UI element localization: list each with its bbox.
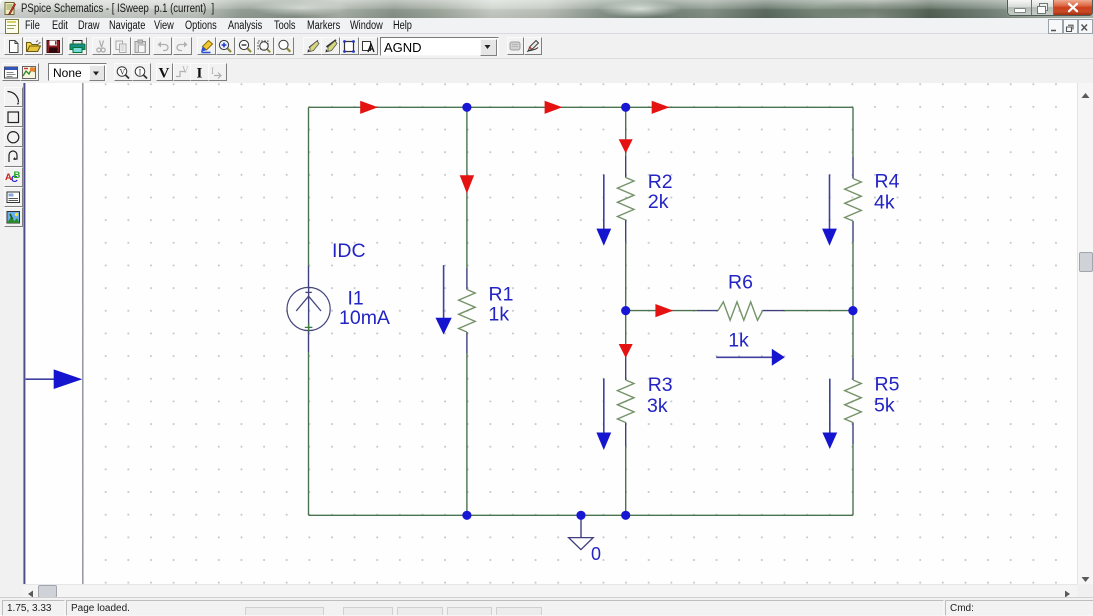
enable bias current display button: [190, 63, 209, 81]
enable bias voltage display button: [156, 63, 173, 81]
pin R4 bottom: [852, 221, 854, 242]
horizontal scrollbar: [0, 584, 23, 597]
current direction arrow into R2: [619, 139, 633, 153]
svg-text:V: V: [120, 68, 126, 77]
view voltage levels button: [114, 63, 133, 81]
current direction arrow into R1: [460, 175, 474, 193]
current marker R3 stem: [603, 379, 605, 434]
current source I1 body: [287, 287, 330, 331]
resistor R5: [845, 380, 862, 423]
MDI child window buttons: [1048, 19, 1063, 34]
show voltages on selected nets (disabled): [173, 63, 192, 81]
save button: [44, 37, 63, 55]
pin R4 top: [852, 157, 854, 179]
page edge line: [23, 83, 25, 584]
current marker R1 stem: [443, 265, 445, 319]
schematic canvas: [23, 83, 1077, 584]
redo button (disabled): [173, 37, 192, 55]
node dot top-middle: [621, 103, 630, 112]
current marker R1 head: [436, 318, 452, 335]
status bar: [0, 597, 1093, 615]
toolbar row 2: [0, 59, 1093, 84]
current marker R5 head: [822, 433, 837, 450]
current direction arrow top 2: [545, 101, 563, 114]
vertical scrollbar: [1077, 83, 1093, 584]
node dot top-R1: [462, 103, 471, 112]
pin R5 top: [852, 358, 854, 380]
svg-text:I: I: [139, 68, 142, 77]
resistor R2: [617, 178, 634, 221]
app icon: [4, 2, 17, 15]
wire bottom: [309, 514, 854, 516]
current marker R6 head: [772, 349, 785, 366]
svg-text:V: V: [159, 66, 170, 82]
AGND combobox: [380, 37, 499, 56]
wire top: [309, 106, 854, 108]
menu bar: [0, 18, 1093, 34]
draw box button: [4, 107, 23, 127]
left toolbar strip: [0, 83, 23, 584]
pin R6 right: [763, 310, 785, 312]
show/hide markers button: [359, 37, 378, 55]
wire left lower: [308, 352, 310, 515]
node dot mid-left: [621, 306, 630, 315]
view currents button: [132, 63, 151, 81]
resistor R3: [617, 380, 634, 423]
current marker R4 head: [822, 229, 837, 246]
print button: [68, 37, 87, 55]
pin R1 bottom: [466, 332, 468, 354]
page margin line: [82, 83, 84, 584]
current marker R3 head: [596, 433, 611, 451]
None combobox: [48, 63, 107, 81]
ground symbol 0: [569, 538, 594, 550]
draw circle button: [4, 127, 23, 147]
current marker R2 head: [596, 229, 611, 246]
wire R6 row: [626, 310, 853, 312]
zoom in button: [216, 37, 235, 55]
insert picture button: [4, 207, 23, 227]
wire right branch: [852, 107, 854, 515]
pin R2 bottom: [625, 220, 627, 242]
current marker R2 stem: [603, 175, 605, 230]
current direction arrow R6 left: [655, 304, 673, 317]
recent simulation button: [2, 63, 21, 81]
wire R1 branch: [466, 107, 468, 515]
copy button (disabled): [112, 37, 131, 55]
differential marker button: [321, 37, 340, 55]
current direction arrow into R3: [619, 344, 633, 358]
pin R2 top: [625, 156, 627, 178]
current direction arrow top 3: [652, 101, 670, 114]
draw wire (pencil) button: [197, 37, 216, 55]
undo button (disabled): [153, 37, 172, 55]
current marker left-edge head: [54, 369, 83, 389]
window title bar: [0, 0, 1093, 18]
toolbar row 1: [0, 34, 1093, 59]
resistor R1: [459, 290, 476, 333]
wire middle branch: [625, 107, 627, 515]
pin R3 bottom: [625, 423, 627, 447]
ground stem: [580, 515, 582, 537]
svg-text:I: I: [211, 66, 214, 76]
node dot mid-right: [848, 306, 857, 315]
pin R3 top: [625, 358, 627, 380]
open file button: [24, 37, 43, 55]
current marker R4 stem: [829, 175, 831, 230]
svg-text:B: B: [13, 170, 20, 181]
status bar cell boxes: [245, 607, 324, 616]
pin R6 left: [697, 310, 718, 312]
current marker R5 stem: [829, 379, 831, 433]
voltage marker button: [303, 37, 322, 55]
zoom area button: [255, 37, 274, 55]
caption buttons: minimize, maximize, close: [1007, 0, 1093, 16]
zoom out button: [236, 37, 255, 55]
cut button (disabled): [92, 37, 111, 55]
current marker R6 stem: [716, 356, 772, 358]
paste button (disabled): [131, 37, 150, 55]
node dot bottom-R1: [462, 511, 471, 520]
edit symbol button: [524, 37, 542, 55]
wire left upper: [308, 107, 310, 266]
pin R5 bottom: [852, 423, 854, 445]
draw polyline button: [4, 147, 23, 167]
node dot bottom-ground: [576, 511, 585, 520]
current source I1 pins: [308, 266, 310, 352]
svg-text:V: V: [182, 65, 189, 75]
new file button: [4, 37, 23, 55]
menubar MDI doc icon: [5, 19, 19, 34]
pin R1 top: [466, 268, 468, 290]
resistor R4: [845, 179, 862, 222]
current marker left-edge stem: [26, 378, 55, 380]
draw arc button: [4, 87, 23, 107]
text box button: [4, 187, 23, 207]
node dot bottom-middle: [621, 511, 630, 520]
current direction arrow top 1: [360, 101, 378, 114]
simulate button: [20, 63, 39, 81]
show currents on selected parts (disabled): [208, 63, 227, 81]
zoom page button: [275, 37, 294, 55]
current marker box button: [340, 37, 359, 55]
resistor R6: [718, 302, 763, 320]
draw text button: [4, 167, 23, 187]
svg-text:I: I: [197, 66, 203, 82]
netlist button (disabled): [507, 37, 524, 55]
